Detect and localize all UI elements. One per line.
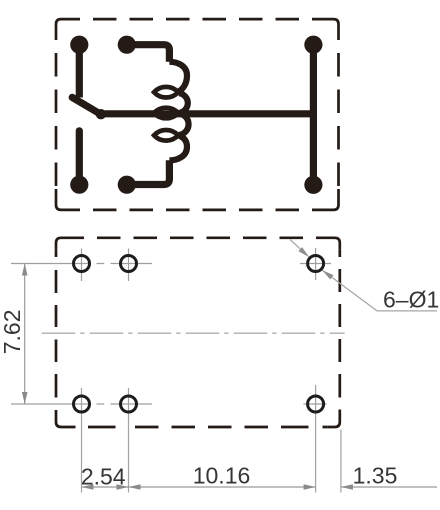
svg-text:1.35: 1.35 <box>353 463 398 489</box>
svg-text:2.54: 2.54 <box>81 464 126 490</box>
svg-text:7.62: 7.62 <box>0 310 25 355</box>
svg-text:10.16: 10.16 <box>193 463 251 489</box>
svg-text:6–Ø1: 6–Ø1 <box>383 286 439 312</box>
